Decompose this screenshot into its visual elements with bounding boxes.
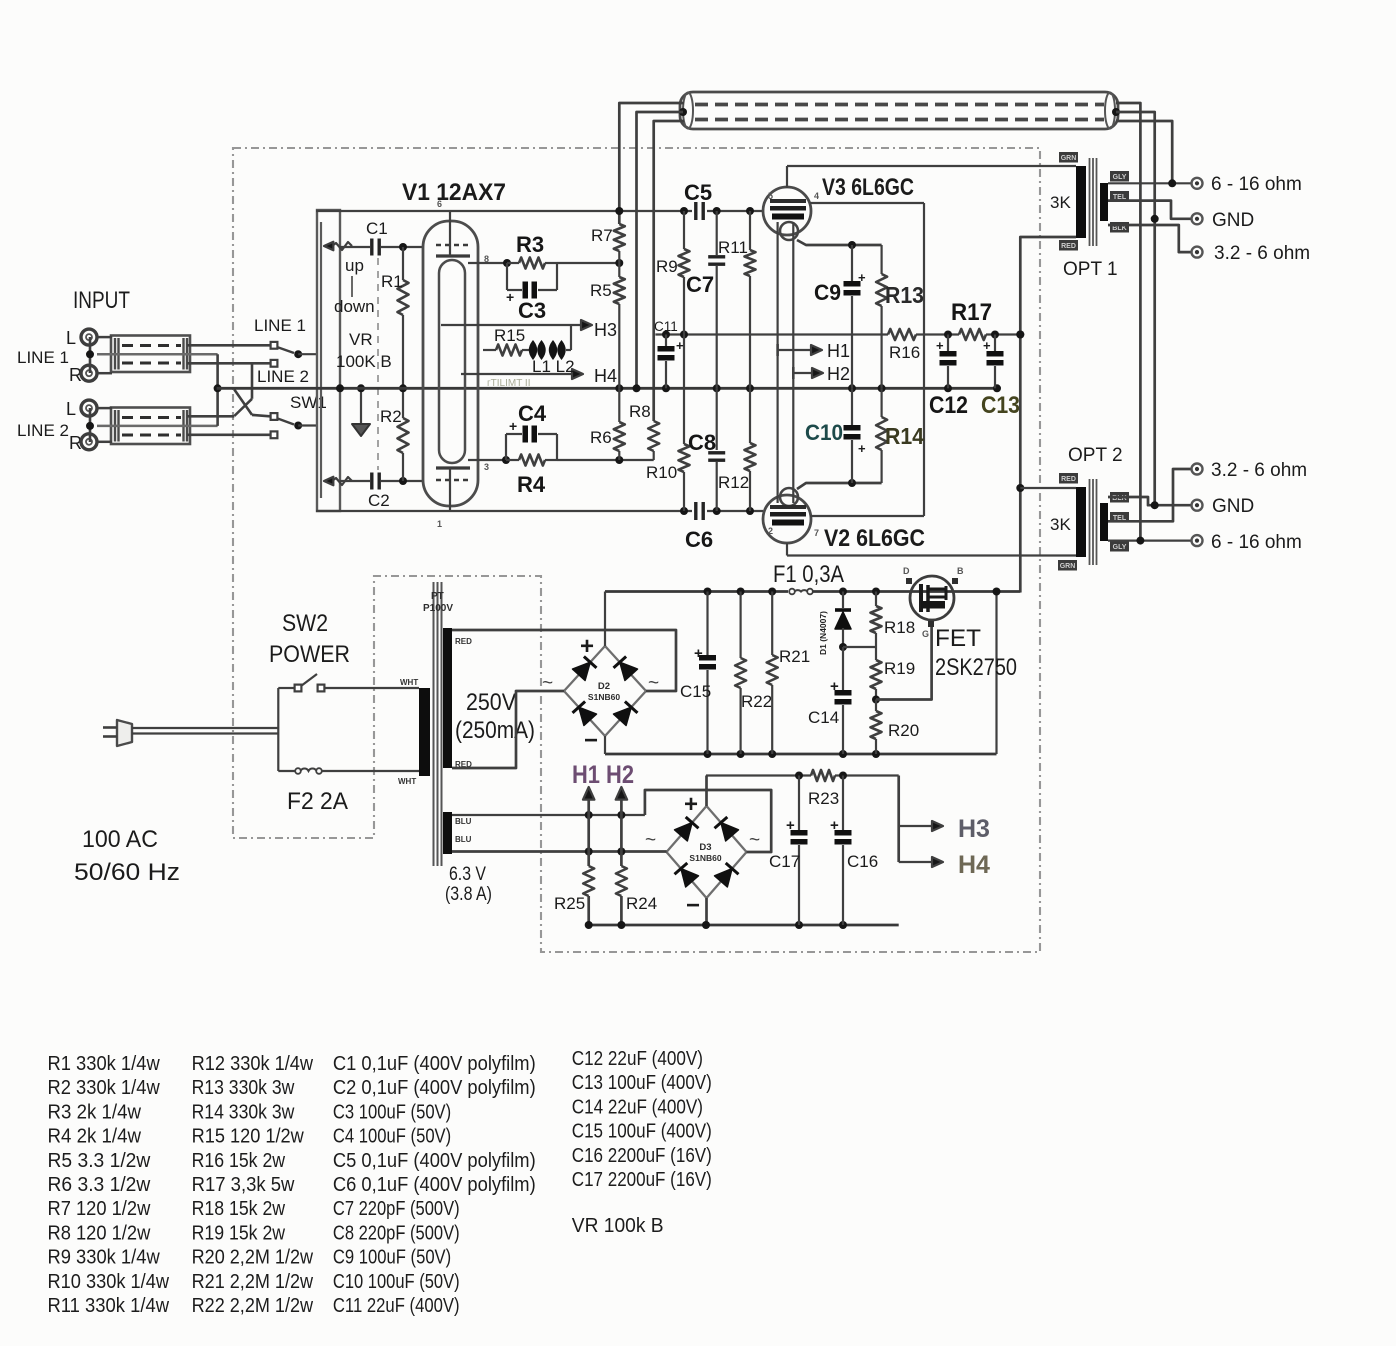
- svg-text:C9: C9: [814, 280, 841, 305]
- svg-text:C17 2200uF (16V): C17 2200uF (16V): [572, 1168, 712, 1191]
- svg-text:R4 2k 1/4w: R4 2k 1/4w: [48, 1125, 142, 1148]
- svg-text:C14: C14: [808, 708, 839, 727]
- svg-text:100K B: 100K B: [336, 352, 392, 371]
- svg-text:VR: VR: [349, 330, 373, 349]
- svg-text:S1NB60: S1NB60: [689, 853, 721, 863]
- svg-text:250V: 250V: [466, 689, 516, 716]
- svg-text:H1 H2: H1 H2: [572, 761, 634, 789]
- svg-text:+: +: [509, 418, 517, 434]
- svg-text:R18: R18: [884, 618, 915, 637]
- svg-text:GRN: GRN: [1061, 155, 1077, 162]
- svg-text:(250mA): (250mA): [455, 717, 535, 744]
- svg-text:R7 120 1/2w: R7 120 1/2w: [48, 1197, 151, 1220]
- svg-text:R4: R4: [517, 472, 546, 497]
- svg-text:WHT: WHT: [398, 777, 416, 786]
- svg-text:4: 4: [814, 191, 819, 201]
- svg-text:C13 100uF (400V): C13 100uF (400V): [572, 1071, 712, 1094]
- svg-text:R19 15k 2w: R19 15k 2w: [192, 1221, 286, 1244]
- svg-text:H2: H2: [827, 364, 850, 384]
- svg-text:H3: H3: [958, 815, 990, 843]
- svg-text:C10 100uF (50V): C10 100uF (50V): [333, 1270, 460, 1293]
- svg-text:+: +: [684, 791, 698, 818]
- svg-text:INPUT: INPUT: [73, 287, 130, 314]
- svg-text:F2 2A: F2 2A: [287, 788, 348, 815]
- svg-text:H1: H1: [827, 341, 850, 361]
- svg-text:R5: R5: [590, 281, 612, 300]
- svg-text:G: G: [922, 629, 929, 639]
- svg-text:PT: PT: [431, 591, 444, 602]
- svg-text:BLU: BLU: [455, 817, 472, 826]
- svg-text:R15 120 1/2w: R15 120 1/2w: [192, 1125, 304, 1148]
- svg-text:L: L: [66, 399, 76, 419]
- svg-text:+: +: [694, 645, 703, 662]
- svg-text:ᴦTILIMT II: ᴦTILIMT II: [487, 378, 530, 389]
- svg-text:3.2 - 6 ohm: 3.2 - 6 ohm: [1214, 243, 1310, 264]
- svg-text:R1 330k 1/4w: R1 330k 1/4w: [48, 1052, 160, 1075]
- svg-text:R19: R19: [884, 659, 915, 678]
- svg-text:R15: R15: [494, 326, 525, 345]
- svg-text:R25: R25: [554, 894, 585, 913]
- svg-text:C12: C12: [929, 392, 968, 419]
- svg-text:+: +: [580, 633, 594, 660]
- svg-text:C6 0,1uF (400V polyfilm): C6 0,1uF (400V polyfilm): [333, 1173, 536, 1196]
- svg-text:C8: C8: [688, 430, 716, 455]
- svg-text:RED: RED: [455, 637, 472, 646]
- svg-text:R6 3.3 1/2w: R6 3.3 1/2w: [48, 1173, 151, 1196]
- svg-text:R8: R8: [629, 402, 651, 421]
- svg-text:R3 2k 1/4w: R3 2k 1/4w: [48, 1100, 142, 1123]
- svg-text:C3: C3: [518, 298, 546, 323]
- svg-text:C11 22uF (400V): C11 22uF (400V): [333, 1294, 460, 1317]
- svg-text:C14 22uF (400V): C14 22uF (400V): [572, 1095, 703, 1118]
- svg-text:BLU: BLU: [455, 835, 472, 844]
- svg-text:C4: C4: [518, 401, 547, 426]
- svg-text:R21 2,2M 1/2w: R21 2,2M 1/2w: [192, 1270, 314, 1293]
- svg-text:1: 1: [437, 519, 442, 529]
- svg-text:R2 330k 1/4w: R2 330k 1/4w: [48, 1076, 160, 1099]
- svg-text:D2: D2: [598, 681, 610, 692]
- svg-text:R11: R11: [718, 238, 748, 257]
- svg-text:C5 0,1uF (400V polyfilm): C5 0,1uF (400V polyfilm): [333, 1149, 536, 1172]
- svg-text:C3 100uF (50V): C3 100uF (50V): [333, 1100, 451, 1123]
- svg-text:VR 100k B: VR 100k B: [572, 1214, 664, 1237]
- svg-text:+: +: [858, 441, 866, 456]
- svg-text:LINE 2: LINE 2: [17, 421, 69, 440]
- svg-text:L: L: [66, 328, 76, 348]
- svg-text:(3.8 A): (3.8 A): [445, 884, 492, 905]
- svg-text:D: D: [903, 566, 910, 576]
- svg-text:GLY: GLY: [1113, 174, 1127, 181]
- svg-text:C1: C1: [366, 219, 388, 238]
- svg-text:GND: GND: [1212, 496, 1254, 517]
- svg-text:+: +: [676, 338, 684, 353]
- svg-text:3: 3: [484, 462, 489, 472]
- svg-text:SW2: SW2: [282, 610, 328, 637]
- svg-text:R18 15k 2w: R18 15k 2w: [192, 1197, 286, 1220]
- svg-text:H3: H3: [594, 320, 617, 340]
- svg-text:+: +: [830, 678, 839, 695]
- svg-text:RED: RED: [1061, 476, 1076, 483]
- svg-text:D3: D3: [699, 842, 711, 853]
- svg-text:V3 6L6GC: V3 6L6GC: [822, 174, 914, 201]
- svg-text:R8 120 1/2w: R8 120 1/2w: [48, 1221, 151, 1244]
- svg-text:R3: R3: [516, 232, 544, 257]
- svg-text:D1 (N4007): D1 (N4007): [818, 611, 828, 655]
- svg-text:R12 330k 1/4w: R12 330k 1/4w: [192, 1052, 314, 1075]
- svg-text:R11 330k 1/4w: R11 330k 1/4w: [48, 1294, 170, 1317]
- svg-text:C16: C16: [847, 852, 878, 871]
- svg-text:+: +: [506, 289, 514, 305]
- svg-text:C6: C6: [685, 527, 713, 552]
- svg-text:50/60 Hz: 50/60 Hz: [74, 859, 180, 886]
- svg-text:C10: C10: [805, 420, 843, 445]
- svg-text:R16 15k 2w: R16 15k 2w: [192, 1149, 286, 1172]
- svg-text:R6: R6: [590, 428, 612, 447]
- svg-text:H4: H4: [958, 851, 990, 879]
- svg-text:WHT: WHT: [400, 678, 418, 687]
- svg-text:6 - 16 ohm: 6 - 16 ohm: [1211, 174, 1302, 195]
- svg-text:2: 2: [768, 526, 773, 536]
- svg-text:C1 0,1uF (400V polyfilm): C1 0,1uF (400V polyfilm): [333, 1052, 536, 1075]
- svg-text:3K: 3K: [1050, 193, 1071, 212]
- svg-text:RED: RED: [1061, 243, 1076, 250]
- svg-text:R22: R22: [741, 692, 772, 711]
- svg-text:R5 3.3 1/2w: R5 3.3 1/2w: [48, 1149, 151, 1172]
- svg-text:C15: C15: [680, 682, 711, 701]
- svg-text:C4 100uF (50V): C4 100uF (50V): [333, 1125, 451, 1148]
- svg-text:C13: C13: [981, 392, 1020, 419]
- svg-text:R16: R16: [889, 343, 920, 362]
- svg-text:R13 330k 3w: R13 330k 3w: [192, 1076, 295, 1099]
- svg-text:R9 330k 1/4w: R9 330k 1/4w: [48, 1246, 160, 1269]
- svg-text:8: 8: [484, 254, 489, 264]
- svg-text:R1: R1: [381, 272, 403, 291]
- svg-text:R2: R2: [380, 407, 402, 426]
- svg-text:down: down: [334, 297, 375, 316]
- svg-text:R22 2,2M 1/2w: R22 2,2M 1/2w: [192, 1294, 314, 1317]
- svg-text:+: +: [983, 338, 991, 353]
- svg-text:−: −: [584, 727, 598, 754]
- svg-text:R10 330k 1/4w: R10 330k 1/4w: [48, 1270, 170, 1293]
- svg-text:LINE 2: LINE 2: [257, 367, 309, 386]
- svg-text:C5: C5: [684, 180, 712, 205]
- svg-text:S1NB60: S1NB60: [588, 692, 620, 702]
- svg-text:POWER: POWER: [269, 641, 350, 668]
- svg-text:6: 6: [437, 199, 442, 209]
- svg-text:OPT 1: OPT 1: [1063, 259, 1118, 280]
- svg-text:R10: R10: [646, 463, 677, 482]
- svg-text:R9: R9: [656, 257, 678, 276]
- svg-text:C16 2200uF (16V): C16 2200uF (16V): [572, 1144, 712, 1167]
- svg-text:3K: 3K: [1050, 515, 1071, 534]
- svg-text:C12 22uF (400V): C12 22uF (400V): [572, 1047, 703, 1070]
- svg-text:R20 2,2M 1/2w: R20 2,2M 1/2w: [192, 1246, 314, 1269]
- svg-text:R17 3,3k 5w: R17 3,3k 5w: [192, 1173, 295, 1196]
- svg-text:2SK2750: 2SK2750: [935, 654, 1017, 681]
- svg-text:~: ~: [749, 830, 760, 851]
- svg-text:7: 7: [814, 528, 819, 538]
- svg-text:R24: R24: [626, 894, 657, 913]
- svg-text:H4: H4: [594, 366, 617, 386]
- svg-text:+: +: [858, 270, 866, 285]
- svg-text:GND: GND: [1212, 210, 1254, 231]
- svg-text:B: B: [957, 566, 964, 576]
- svg-text:R17: R17: [951, 299, 992, 326]
- svg-text:C7 220pF (500V): C7 220pF (500V): [333, 1197, 460, 1220]
- svg-text:R13: R13: [885, 282, 924, 308]
- svg-text:OPT 2: OPT 2: [1068, 445, 1123, 466]
- svg-text:C8 220pF (500V): C8 220pF (500V): [333, 1221, 460, 1244]
- svg-text:V2 6L6GC: V2 6L6GC: [824, 525, 925, 552]
- svg-text:R14: R14: [885, 423, 924, 449]
- svg-text:~: ~: [645, 830, 656, 851]
- svg-text:6.3 V: 6.3 V: [449, 864, 486, 885]
- svg-text:5: 5: [768, 191, 773, 201]
- svg-text:C2: C2: [368, 491, 390, 510]
- svg-text:R14 330k 3w: R14 330k 3w: [192, 1100, 295, 1123]
- svg-text:C15 100uF (400V): C15 100uF (400V): [572, 1120, 712, 1143]
- svg-text:L1 L2: L1 L2: [532, 357, 575, 376]
- svg-text:P100V: P100V: [423, 603, 453, 614]
- svg-text:GLY: GLY: [1113, 544, 1127, 551]
- svg-text:C7: C7: [686, 272, 714, 297]
- svg-text:R7: R7: [591, 226, 613, 245]
- svg-text:C17: C17: [769, 852, 800, 871]
- svg-text:C11: C11: [654, 319, 678, 334]
- svg-text:R21: R21: [779, 647, 810, 666]
- svg-text:V1 12AX7: V1 12AX7: [402, 179, 506, 206]
- svg-text:up: up: [345, 256, 364, 275]
- svg-text:−: −: [686, 892, 700, 919]
- svg-text:R23: R23: [808, 789, 839, 808]
- svg-text:FET: FET: [935, 625, 981, 652]
- svg-text:3.2 - 6 ohm: 3.2 - 6 ohm: [1211, 460, 1307, 481]
- svg-text:+: +: [786, 817, 795, 834]
- svg-text:100 AC: 100 AC: [82, 826, 158, 853]
- svg-text:R12: R12: [718, 473, 749, 492]
- svg-text:R20: R20: [888, 721, 919, 740]
- svg-text:LINE 1: LINE 1: [17, 348, 69, 367]
- svg-text:LINE 1: LINE 1: [254, 316, 306, 335]
- svg-text:6 - 16 ohm: 6 - 16 ohm: [1211, 532, 1302, 553]
- svg-text:C9 100uF (50V): C9 100uF (50V): [333, 1246, 451, 1269]
- svg-text:+: +: [936, 338, 944, 353]
- svg-text:GRN: GRN: [1060, 563, 1076, 570]
- svg-text:C2 0,1uF (400V polyfilm): C2 0,1uF (400V polyfilm): [333, 1076, 536, 1099]
- svg-text:F1 0,3A: F1 0,3A: [773, 561, 844, 588]
- svg-text:+: +: [830, 817, 839, 834]
